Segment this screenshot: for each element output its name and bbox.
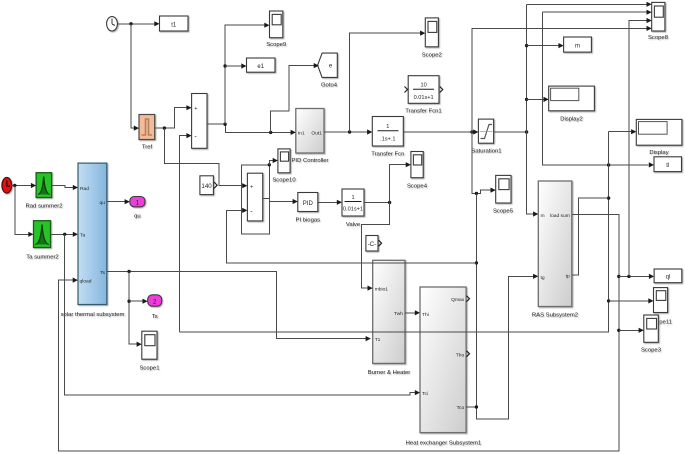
wire branch to mbio1 xyxy=(362,203,390,289)
svg-text:qu: qu xyxy=(100,201,106,206)
svg-text:Heat exchanger Subsystem1: Heat exchanger Subsystem1 xyxy=(406,441,482,447)
subsystem solar thermal subsystem xyxy=(61,163,125,318)
wire clock to t1 xyxy=(118,23,157,25)
scope Scope8 xyxy=(648,2,669,41)
svg-text:Ta summer2: Ta summer2 xyxy=(26,255,58,261)
wire Ts output to T1 xyxy=(107,272,368,339)
svg-text:In1: In1 xyxy=(298,131,305,137)
junction tp join xyxy=(607,196,610,199)
svg-text:1: 1 xyxy=(351,195,354,201)
junction Valve output xyxy=(388,201,391,204)
scope Scope11 xyxy=(649,288,672,326)
scope Scope4 xyxy=(407,152,428,190)
svg-text:Scope4: Scope4 xyxy=(407,184,428,190)
svg-text:solar thermal subsystem: solar thermal subsystem xyxy=(61,312,125,318)
wire Ta branch to Tci xyxy=(65,234,417,395)
wire qu to outport 1 xyxy=(107,201,127,203)
svg-text:Goto4: Goto4 xyxy=(321,83,338,89)
open output tab Tho xyxy=(467,351,470,357)
junction clock branch xyxy=(129,22,132,25)
subsystem PID Controller xyxy=(292,109,329,165)
goto tl xyxy=(654,157,682,172)
svg-text:Display2: Display2 xyxy=(560,117,583,123)
svg-text:Valve: Valve xyxy=(346,222,361,228)
wire Sum2 output loop xyxy=(263,197,270,199)
svg-text:Tco: Tco xyxy=(457,405,465,411)
svg-text:tg: tg xyxy=(541,275,545,281)
scope Scope5 xyxy=(493,175,514,214)
junction Sum1 output xyxy=(223,123,226,126)
wire tl net riser xyxy=(543,12,649,165)
open output tab Qmax xyxy=(467,296,470,302)
junction Scope8 in3 riser xyxy=(627,275,630,278)
wire PID Out1 to Transfer Fcn xyxy=(324,131,369,133)
wire Ta summer2 to Ta xyxy=(51,233,76,235)
junction Ts branch xyxy=(127,270,130,273)
junction red clock branch xyxy=(13,184,16,187)
wire clock branch to Tref xyxy=(131,24,136,128)
svg-text:Tho: Tho xyxy=(456,352,465,358)
wire branch to Ta summer2 xyxy=(15,186,31,235)
svg-text:m: m xyxy=(575,44,580,50)
goto t1 xyxy=(160,16,189,31)
wire tp long horizontal xyxy=(179,301,608,332)
svg-text:.1s+.1: .1s+.1 xyxy=(380,137,395,143)
clock Clock xyxy=(107,17,118,31)
svg-text:Ta: Ta xyxy=(80,232,85,238)
wire into m goto xyxy=(527,45,561,47)
wire Tco vertical net xyxy=(476,193,535,418)
subsystem PID PI biogas xyxy=(296,193,321,224)
junction Transfer Fcn output xyxy=(470,130,473,133)
junction m goto tap xyxy=(525,44,528,47)
transfer function Valve xyxy=(342,189,364,228)
svg-text:140: 140 xyxy=(201,183,212,190)
svg-text:Ts: Ts xyxy=(100,270,105,276)
wire Rad summer2 to Rad xyxy=(52,186,75,188)
svg-text:Scope10: Scope10 xyxy=(272,178,296,184)
wire tp feedback riser into Sum1 minus xyxy=(179,136,188,332)
svg-text:Out1: Out1 xyxy=(311,131,322,137)
wire Valve output xyxy=(364,202,390,204)
transfer function Transfer Fcn xyxy=(371,117,404,158)
svg-text:RAS Subsystem2: RAS Subsystem2 xyxy=(532,313,578,319)
scope Scope2 xyxy=(422,18,442,59)
wire x608 vertical xyxy=(608,132,610,301)
junction y263 join xyxy=(475,261,478,264)
wire into Scope3 xyxy=(619,329,641,331)
open output tab of Transfer Fcn1 xyxy=(440,87,443,93)
svg-text:+: + xyxy=(250,184,253,190)
saturation Saturation1 xyxy=(471,119,501,154)
junction ql tap xyxy=(617,275,620,278)
svg-text:1: 1 xyxy=(386,124,389,130)
svg-text:Transfer Fcn: Transfer Fcn xyxy=(371,152,404,158)
wire into Scope11 xyxy=(609,300,651,302)
wire PID output branch to Scope2 xyxy=(350,33,423,132)
wire into Scope10 xyxy=(269,161,275,165)
wire y263 horizontal into Sum2 minus xyxy=(227,210,477,263)
open input tab of Transfer Fcn1 xyxy=(405,87,408,93)
wire into outport 2 xyxy=(129,300,145,302)
outport 1 qu xyxy=(130,197,145,220)
svg-text:e1: e1 xyxy=(257,64,264,70)
wire Tco output join xyxy=(466,406,476,408)
svg-text:qu: qu xyxy=(134,214,141,220)
svg-text:Tref: Tref xyxy=(142,145,153,151)
pulse generator Tref xyxy=(139,115,155,151)
goto ql xyxy=(654,269,682,283)
wire into Display xyxy=(609,131,631,133)
svg-text:0.01s+1: 0.01s+1 xyxy=(414,95,434,101)
wire into Display2 xyxy=(527,98,546,100)
goto tag Goto4 xyxy=(318,53,338,88)
svg-text:0.01s+1: 0.01s+1 xyxy=(343,207,363,213)
wire tp output to join xyxy=(572,198,609,275)
wire branch up to Scope8 input4 xyxy=(472,28,649,132)
scope Scope1 xyxy=(140,331,160,371)
wire Ts branch down to port2 and Scope1 xyxy=(129,272,139,345)
svg-text:PID Controller: PID Controller xyxy=(292,158,329,164)
wire Tref branch to Sum2 plus xyxy=(164,128,244,186)
svg-text:Scope3: Scope3 xyxy=(641,348,662,354)
wire branch to Scope4 xyxy=(390,165,408,203)
constant 140 xyxy=(200,176,214,195)
constant -C- xyxy=(366,236,378,252)
svg-text:Tci: Tci xyxy=(422,391,428,397)
junction Scope11 tap xyxy=(607,299,610,302)
wire Sum1 output to PID In1 xyxy=(207,124,293,132)
svg-text:PI biogas: PI biogas xyxy=(296,218,321,224)
wire riser to Scope8 input3 xyxy=(629,21,649,277)
wire load sum output xyxy=(572,213,619,215)
junction tl wire xyxy=(607,163,610,166)
wire into ql xyxy=(619,275,651,277)
subsystem RAS Subsystem2 xyxy=(532,181,578,319)
junction Ta branch xyxy=(63,233,66,236)
svg-text:Scope5: Scope5 xyxy=(493,209,514,215)
svg-text:-C-: -C- xyxy=(368,242,376,248)
wire qload feedback xyxy=(58,214,619,451)
source Rad summer2 xyxy=(26,173,63,210)
junction Scope5 branch xyxy=(475,192,478,195)
junction port2 tap xyxy=(127,300,130,303)
open output tab of 140 xyxy=(214,182,217,188)
wire to Scope8 input2 xyxy=(543,11,649,13)
svg-text:T1: T1 xyxy=(375,337,381,343)
junction Tco join xyxy=(475,405,478,408)
svg-text:Display: Display xyxy=(649,150,668,156)
subsystem Burner & Heater xyxy=(368,260,411,376)
wire into PI biogas xyxy=(269,201,295,203)
svg-text:Scope2: Scope2 xyxy=(422,53,442,59)
svg-text:10: 10 xyxy=(420,83,426,89)
junction Tref output xyxy=(163,126,166,129)
sum Sum2 xyxy=(247,173,262,221)
wire Transfer Fcn to Saturation1 xyxy=(403,131,475,133)
wire riser and drop of saturation net xyxy=(527,4,536,214)
svg-text:Ts: Ts xyxy=(152,314,158,320)
wire to Scope8 input1 xyxy=(527,3,649,5)
svg-text:PID: PID xyxy=(303,201,314,207)
svg-text:Burner & Heater: Burner & Heater xyxy=(368,370,411,376)
svg-text:t1: t1 xyxy=(171,22,177,28)
svg-text:Rad summer2: Rad summer2 xyxy=(26,204,63,210)
scope Scope10 xyxy=(272,149,296,184)
wire to Goto4 xyxy=(271,66,316,133)
junction e1 branch xyxy=(223,64,226,67)
open output tab of -C- xyxy=(379,240,382,246)
display Display xyxy=(636,119,682,156)
svg-text:Rad: Rad xyxy=(80,186,89,192)
junction PID output xyxy=(348,130,351,133)
scope Scope3 xyxy=(641,315,662,354)
svg-text:Saturation1: Saturation1 xyxy=(471,149,501,155)
wire e riser to e1 and Scope9 xyxy=(225,25,266,124)
svg-text:Thi: Thi xyxy=(422,312,429,318)
junction Display2 tap xyxy=(525,98,528,101)
wire Twh to Thi xyxy=(405,312,417,314)
digital clock (red) xyxy=(2,178,12,194)
junction PID input branch xyxy=(269,131,272,134)
scope Scope9 xyxy=(266,11,286,48)
svg-text:ql: ql xyxy=(666,275,671,281)
svg-text:Scope1: Scope1 xyxy=(140,366,160,372)
svg-text:m: m xyxy=(541,214,545,219)
wire Tref to Sum1 plus xyxy=(155,108,189,128)
svg-text:Twh: Twh xyxy=(394,311,403,317)
svg-text:load sum: load sum xyxy=(550,213,570,219)
junction Saturation output xyxy=(525,130,528,133)
goto e1 xyxy=(247,58,276,72)
svg-text:tp: tp xyxy=(566,274,570,280)
goto m xyxy=(564,37,592,52)
junction Scope3 tap xyxy=(617,329,620,332)
wire red clock to Rad summer2 xyxy=(11,185,33,187)
svg-text:qload: qload xyxy=(80,279,92,285)
display Display2 xyxy=(549,86,595,122)
wire Saturation1 output xyxy=(494,131,527,133)
sum Sum1 xyxy=(192,94,207,149)
outport 2 Ts xyxy=(148,295,162,320)
transfer function Transfer Fcn1 xyxy=(405,76,441,115)
svg-text:Transfer Fcn1: Transfer Fcn1 xyxy=(405,109,441,115)
svg-text:mbio1: mbio1 xyxy=(375,287,389,293)
svg-text:Scope9: Scope9 xyxy=(266,42,286,48)
source Ta summer2 xyxy=(26,221,58,261)
wire into e1 xyxy=(225,65,243,67)
svg-text:Scope8: Scope8 xyxy=(648,35,669,41)
wire branch down to Scope5 xyxy=(472,132,493,193)
svg-text:Qmax: Qmax xyxy=(451,297,465,303)
subsystem Heat exchanger Subsystem1 xyxy=(406,287,482,447)
junction Scope10 tap xyxy=(268,163,271,166)
svg-text:+: + xyxy=(194,106,197,112)
wire PI biogas to Valve xyxy=(318,201,339,203)
svg-text:tl: tl xyxy=(666,163,669,169)
